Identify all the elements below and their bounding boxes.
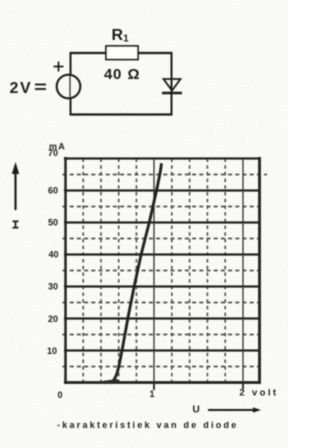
minor horizontal gridlines (5 mA) xyxy=(63,175,268,367)
svg-text:volt: volt xyxy=(252,388,279,399)
y axis labels xyxy=(47,148,59,356)
wire left vertical bottom (source bottom to corner) xyxy=(70,98,72,116)
wire left vertical top (source top to corner) xyxy=(70,53,72,76)
2 V gridline xyxy=(242,159,244,383)
current axis arrow (I) xyxy=(12,162,19,210)
svg-text:40: 40 xyxy=(48,250,58,260)
wire bottom horizontal xyxy=(70,113,173,115)
svg-text:20: 20 xyxy=(48,314,58,324)
diode D1 cathode bar xyxy=(162,92,182,94)
wire through source xyxy=(69,76,71,97)
resistor R1 body xyxy=(106,46,138,60)
svg-text:-karakteristiek van de diode: -karakteristiek van de diode xyxy=(57,420,239,430)
major horizontal gridlines (10 mA) xyxy=(64,159,260,351)
diode characteristic curve xyxy=(105,165,162,383)
right border gridline xyxy=(258,157,261,384)
svg-text:70: 70 xyxy=(48,148,58,158)
svg-text:U: U xyxy=(193,405,200,416)
svg-text:10: 10 xyxy=(47,346,57,356)
y axis (0 V) xyxy=(64,157,67,384)
svg-text:Ω: Ω xyxy=(128,66,140,83)
svg-text:2: 2 xyxy=(239,388,244,399)
tick 2 V xyxy=(242,383,244,390)
svg-text:1: 1 xyxy=(149,389,154,399)
svg-text:40: 40 xyxy=(104,66,122,83)
label 2V source value xyxy=(10,80,33,97)
svg-text:50: 50 xyxy=(48,218,58,228)
wire right vertical (corner to bottom through diode) xyxy=(171,52,173,116)
svg-text:60: 60 xyxy=(48,186,58,196)
svg-text:2V: 2V xyxy=(10,80,33,97)
x axis (0 mA) xyxy=(64,381,261,384)
curve foot thickening xyxy=(104,381,117,383)
minor vertical gridlines (0.2 V) xyxy=(83,159,225,383)
DC symbol (=) next to 2V xyxy=(35,85,46,90)
diode D1 triangle xyxy=(164,79,181,91)
plus sign of source xyxy=(54,62,64,72)
1 V gridline xyxy=(153,159,155,383)
svg-text:0: 0 xyxy=(57,390,62,400)
tick 1 V xyxy=(153,383,155,391)
label I xyxy=(13,221,19,228)
wire top left horizontal (corner to resistor) xyxy=(70,52,107,54)
wire top right horizontal (resistor to corner) xyxy=(138,52,173,54)
svg-text:30: 30 xyxy=(48,282,58,292)
voltage source V1 circle xyxy=(57,75,81,99)
voltage axis label U with arrow xyxy=(193,405,262,416)
